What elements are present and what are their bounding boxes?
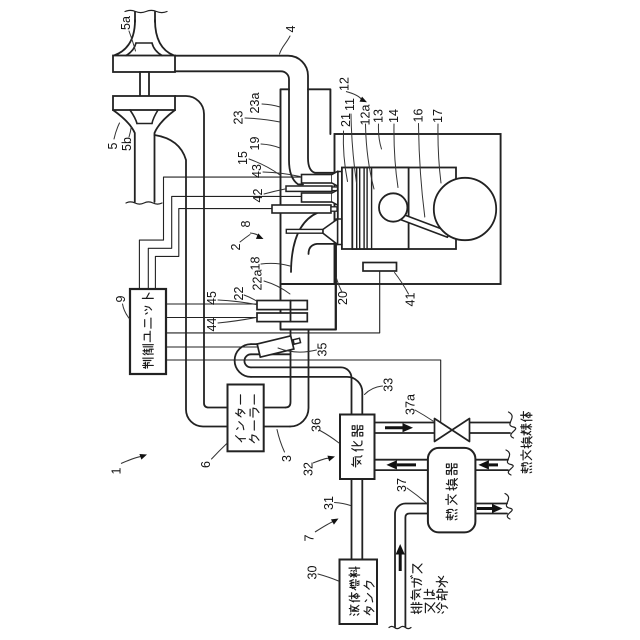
svg-text:1: 1	[110, 467, 124, 474]
vapor passage U-turn inner arc	[244, 354, 251, 367]
svg-text:37a: 37a	[404, 394, 418, 415]
svg-text:43: 43	[250, 164, 264, 178]
intercooler text	[236, 436, 242, 442]
svg-text:15: 15	[236, 151, 250, 165]
liquid fuel line 31 walls	[351, 479, 353, 560]
compressor 5b volute slab	[113, 96, 175, 110]
piston pin circle	[379, 193, 407, 221]
heat medium pipe via valve 37a walls	[375, 422, 435, 424]
fuel tank box 30	[340, 560, 378, 625]
svg-text:44: 44	[205, 318, 219, 332]
svg-text:23a: 23a	[248, 93, 262, 114]
fuel injector 22 upper body	[257, 301, 307, 310]
flow arrow vaporizer to heat medium line	[385, 426, 403, 429]
fuel injector 22 lower body 44	[257, 313, 307, 322]
cylinder head outline	[281, 89, 336, 329]
valve 19 head flare	[332, 190, 338, 205]
spark plug tip	[331, 207, 337, 211]
intake pipe outer wall (compressor elbow + left leg + bottom elbow + bottom run)	[175, 96, 228, 408]
text exhaust gas or cooling water	[411, 611, 421, 612]
svg-text:8: 8	[239, 220, 253, 227]
compressor 5b hub trapezoid	[137, 123, 152, 125]
wire from control unit to spark plug 45 line (stepped)	[155, 209, 273, 289]
vapor passage upper leg walls	[251, 343, 293, 345]
intake runner wall over injector	[290, 301, 292, 322]
vapor passage U-turn outer arc	[235, 344, 251, 377]
pipe break at hx outlet	[505, 494, 512, 520]
wire control unit to throttle injector 35	[166, 346, 257, 348]
flow arrow hx to vaporizer	[397, 463, 416, 466]
pipe 4 bottom wall	[175, 71, 303, 184]
pipe 4 top wall	[175, 56, 338, 173]
hx right outlet pipe walls	[475, 503, 507, 505]
intake port outer wall	[291, 210, 336, 273]
svg-text:41: 41	[404, 293, 418, 307]
svg-text:17: 17	[431, 109, 445, 123]
svg-text:14: 14	[387, 109, 401, 123]
svg-text:42: 42	[251, 189, 265, 203]
turbo shaft	[140, 72, 149, 97]
svg-text:33: 33	[382, 378, 396, 392]
svg-text:12: 12	[338, 77, 352, 91]
svg-text:23: 23	[232, 111, 246, 125]
svg-text:16: 16	[412, 109, 426, 123]
turbine 5a hub trapezoid	[136, 42, 152, 44]
connecting rod 16	[396, 213, 450, 238]
turbine 5a outlet break line	[125, 10, 167, 12]
intake pipe bottom run after intercooler	[264, 407, 286, 409]
pipe break at heat medium inlet	[509, 412, 516, 438]
sensor rod 42	[286, 186, 332, 191]
vaporizer box 36	[340, 415, 375, 480]
svg-text:32: 32	[302, 462, 316, 476]
spark plug 45 body	[272, 205, 331, 213]
exhaust/coolant inlet pipe walls	[395, 504, 428, 628]
combustion chamber wall	[337, 172, 339, 220]
svg-text:22a: 22a	[251, 270, 265, 291]
text heat exchange medium	[521, 469, 526, 471]
throttle injector 35 body	[257, 336, 294, 357]
intake port inner wall	[309, 244, 335, 254]
svg-text:9: 9	[114, 295, 128, 302]
heat exchanger text	[446, 516, 452, 518]
control unit box 9	[130, 289, 166, 374]
exhaust valve 43 stem	[302, 175, 333, 184]
heat exchanger box 37	[428, 448, 476, 533]
turbine 5a outlet pipe walls	[134, 12, 136, 22]
svg-text:37: 37	[395, 478, 409, 492]
crankshaft circle 17	[434, 178, 496, 240]
wire from control unit to ignition coil 43 (stepped)	[139, 177, 301, 289]
fuel tank text	[350, 614, 351, 615]
wire control unit to valve 37a	[166, 360, 441, 422]
intake valve stem	[286, 229, 323, 233]
intake pipe right elbow into runner	[286, 330, 291, 408]
valve 19 stem	[302, 193, 333, 202]
svg-text:7: 7	[303, 534, 317, 541]
flow arrow exhaust gas inlet	[399, 555, 402, 572]
control unit text	[144, 362, 146, 368]
wire control unit to injector 45	[166, 303, 258, 305]
knock sensor 41	[363, 263, 397, 272]
svg-text:13: 13	[372, 109, 386, 123]
compressor 5b inlet break line	[126, 202, 162, 204]
turbine 5a funnel outer curves	[114, 20, 135, 56]
intercooler box 6	[228, 385, 264, 452]
piston 14	[352, 168, 408, 250]
hx-vaporizer pipe walls	[375, 459, 428, 461]
svg-text:6: 6	[199, 461, 213, 468]
svg-text:18: 18	[249, 257, 263, 271]
pipe break at hx inlet	[506, 450, 513, 475]
svg-text:5: 5	[106, 142, 120, 149]
svg-text:35: 35	[316, 343, 330, 357]
flow arrow out of hx right	[477, 507, 492, 510]
turbine 5a volute slab	[113, 56, 175, 73]
svg-text:2: 2	[229, 243, 243, 250]
wire from control unit to valve actuator 42/19 (stepped)	[148, 196, 301, 289]
cylinder bore rectangle 12a	[342, 168, 456, 250]
svg-text:36: 36	[310, 418, 324, 432]
svg-text:45: 45	[205, 291, 219, 305]
svg-text:11: 11	[343, 98, 357, 111]
vapor fuel line 33 lower wall	[251, 377, 362, 415]
vapor fuel line 33 upper wall	[251, 367, 352, 414]
compressor 5b outlet funnel walls	[113, 110, 135, 202]
engine crankcase block 13	[335, 134, 501, 284]
svg-text:30: 30	[306, 566, 320, 580]
svg-text:12a: 12a	[359, 105, 373, 126]
svg-text:22: 22	[232, 287, 246, 301]
intake valve cone	[323, 219, 338, 245]
svg-text:31: 31	[322, 496, 336, 510]
svg-text:5a: 5a	[119, 16, 133, 30]
hx right inlet pipe walls	[475, 459, 508, 461]
svg-text:3: 3	[280, 455, 294, 462]
valve 37a	[435, 419, 453, 442]
seat connector lines	[338, 171, 342, 173]
flow arrow into hx right	[489, 463, 498, 466]
intake pipe inner wall	[155, 135, 228, 427]
wire control unit to knock sensor 41	[166, 271, 380, 333]
piston ring lines	[356, 168, 358, 250]
svg-text:20: 20	[336, 291, 350, 305]
exhaust/coolant pipe break line	[389, 626, 411, 628]
svg-text:4: 4	[284, 25, 298, 32]
exhaust valve 43 head flare	[332, 171, 338, 186]
throttle injector 35 nub	[293, 338, 300, 344]
vaporizer text	[352, 464, 354, 465]
svg-text:19: 19	[248, 137, 262, 151]
sensor rod 42 tip	[332, 187, 338, 191]
wire control unit to injector 44	[166, 317, 258, 319]
block-head joint line	[281, 283, 335, 285]
svg-text:5b: 5b	[120, 137, 134, 151]
